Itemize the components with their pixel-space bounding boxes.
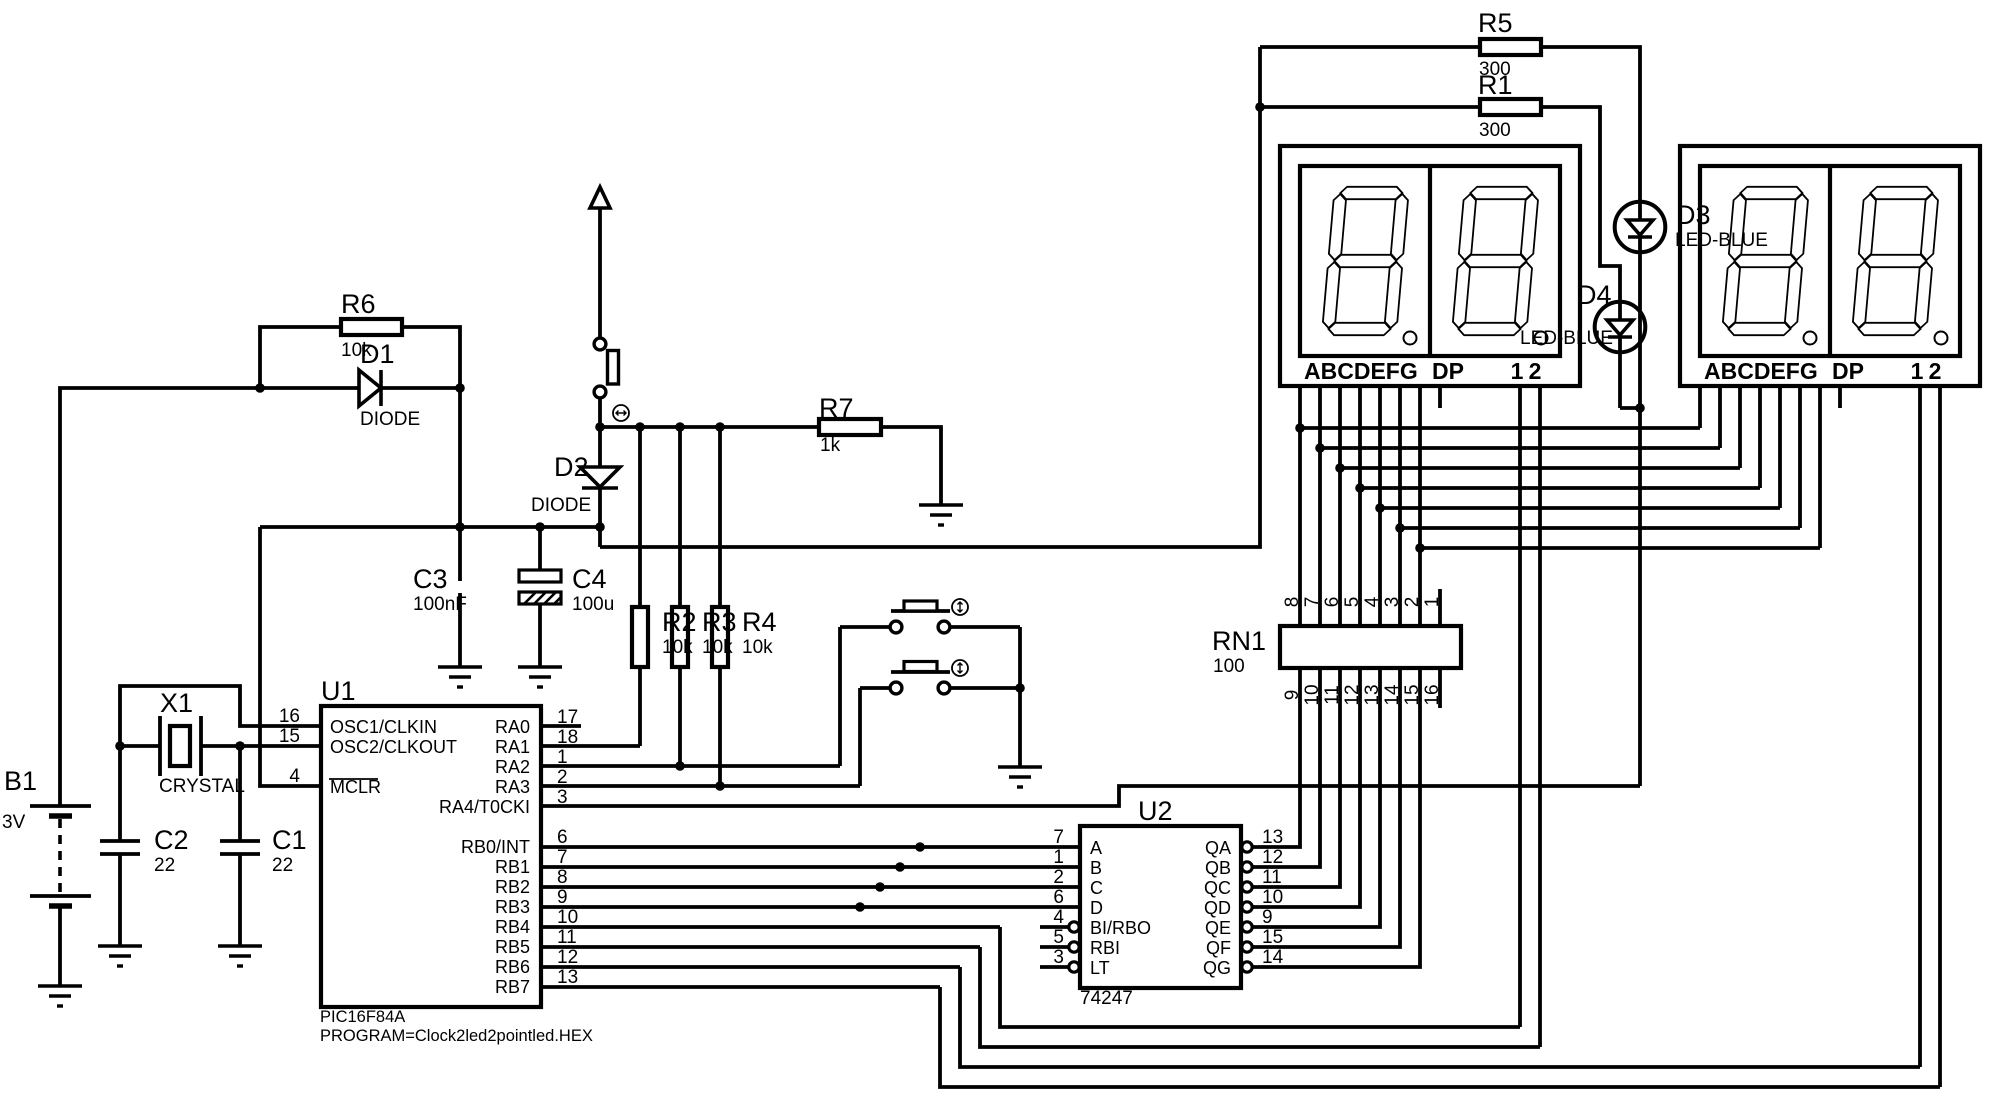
svg-text:B1: B1 [4, 766, 37, 796]
svg-text:RA1: RA1 [495, 737, 530, 757]
svg-text:74247: 74247 [1080, 988, 1133, 1009]
svg-text:C4: C4 [572, 564, 607, 594]
svg-text:13: 13 [1262, 827, 1283, 848]
svg-text:9: 9 [557, 887, 568, 908]
svg-text:4: 4 [289, 766, 300, 787]
svg-text:LED-BLUE: LED-BLUE [1675, 230, 1768, 251]
svg-text:QG: QG [1203, 958, 1231, 978]
svg-text:MCLR: MCLR [330, 777, 381, 797]
svg-text:R3: R3 [702, 607, 737, 637]
svg-text:RA0: RA0 [495, 717, 530, 737]
svg-text:3: 3 [1053, 947, 1064, 968]
svg-text:16: 16 [1422, 684, 1443, 705]
svg-text:300: 300 [1479, 59, 1511, 80]
svg-text:BI/RBO: BI/RBO [1090, 918, 1151, 938]
svg-text:7: 7 [557, 847, 568, 868]
svg-text:RA4/T0CKI: RA4/T0CKI [439, 797, 530, 817]
svg-text:14: 14 [1262, 947, 1284, 968]
svg-text:14: 14 [1382, 684, 1403, 706]
svg-text:C3: C3 [413, 564, 448, 594]
svg-text:10: 10 [1302, 684, 1323, 705]
svg-text:QB: QB [1205, 858, 1231, 878]
svg-text:7: 7 [1302, 597, 1323, 608]
svg-text:ABCDEFG: ABCDEFG [1304, 358, 1418, 384]
svg-text:A: A [1090, 838, 1102, 858]
svg-text:7: 7 [1053, 827, 1064, 848]
svg-text:17: 17 [557, 707, 578, 728]
svg-text:12: 12 [557, 947, 578, 968]
svg-text:QE: QE [1205, 918, 1231, 938]
svg-text:1: 1 [1511, 358, 1524, 384]
svg-text:15: 15 [1402, 684, 1423, 705]
svg-text:1: 1 [557, 747, 568, 768]
svg-text:RB1: RB1 [495, 857, 530, 877]
svg-text:D: D [1090, 898, 1103, 918]
svg-text:2: 2 [1929, 358, 1942, 384]
svg-text:D2: D2 [554, 452, 589, 482]
svg-text:11: 11 [1322, 685, 1343, 705]
svg-text:18: 18 [557, 727, 578, 748]
svg-text:CRYSTAL: CRYSTAL [159, 776, 245, 797]
svg-text:RB0/INT: RB0/INT [461, 837, 530, 857]
svg-text:4: 4 [1362, 596, 1383, 607]
svg-text:U1: U1 [321, 676, 356, 706]
svg-text:RA3: RA3 [495, 777, 530, 797]
svg-text:5: 5 [1342, 597, 1363, 608]
svg-text:PIC16F84A: PIC16F84A [320, 1008, 405, 1026]
svg-text:1: 1 [1422, 597, 1443, 608]
svg-text:C: C [1090, 878, 1103, 898]
svg-text:100u: 100u [572, 594, 614, 615]
svg-text:2: 2 [1053, 867, 1064, 888]
svg-text:6: 6 [557, 827, 568, 848]
svg-text:4: 4 [1053, 907, 1064, 928]
svg-text:RBI: RBI [1090, 938, 1120, 958]
svg-text:RB6: RB6 [495, 957, 530, 977]
svg-text:QF: QF [1206, 938, 1231, 958]
svg-text:12: 12 [1342, 684, 1363, 705]
svg-text:B: B [1090, 858, 1102, 878]
svg-text:100nF: 100nF [413, 594, 467, 615]
svg-text:9: 9 [1282, 690, 1303, 701]
svg-text:9: 9 [1262, 907, 1273, 928]
svg-text:RB4: RB4 [495, 917, 530, 937]
svg-text:RB7: RB7 [495, 977, 530, 997]
svg-text:10k: 10k [742, 637, 773, 658]
svg-text:C2: C2 [154, 825, 189, 855]
svg-text:D3: D3 [1676, 200, 1711, 230]
svg-text:11: 11 [557, 927, 577, 948]
svg-text:3: 3 [1382, 597, 1403, 608]
svg-text:10k: 10k [662, 637, 693, 658]
svg-text:PROGRAM=Clock2led2pointled.HEX: PROGRAM=Clock2led2pointled.HEX [320, 1027, 593, 1045]
svg-text:13: 13 [557, 967, 578, 988]
svg-text:3V: 3V [2, 812, 26, 833]
svg-text:ABCDEFG: ABCDEFG [1704, 358, 1818, 384]
svg-text:22: 22 [272, 855, 293, 876]
svg-text:22: 22 [154, 855, 175, 876]
svg-text:DP: DP [1832, 358, 1864, 384]
svg-text:8: 8 [1282, 597, 1303, 608]
svg-text:11: 11 [1262, 867, 1282, 888]
svg-text:R6: R6 [341, 289, 376, 319]
svg-text:10k: 10k [341, 340, 372, 361]
svg-text:10: 10 [1262, 887, 1283, 908]
svg-text:DP: DP [1432, 358, 1464, 384]
svg-text:12: 12 [1262, 847, 1283, 868]
svg-text:QC: QC [1204, 878, 1231, 898]
svg-text:R5: R5 [1478, 8, 1513, 38]
svg-text:15: 15 [279, 726, 300, 747]
svg-text:10k: 10k [702, 637, 733, 658]
svg-text:6: 6 [1322, 597, 1343, 608]
svg-text:C1: C1 [272, 825, 307, 855]
svg-text:OSC1/CLKIN: OSC1/CLKIN [330, 717, 437, 737]
svg-text:RB5: RB5 [495, 937, 530, 957]
svg-text:1k: 1k [820, 435, 841, 456]
svg-text:13: 13 [1362, 684, 1383, 705]
svg-text:6: 6 [1053, 887, 1064, 908]
svg-text:DIODE: DIODE [360, 409, 420, 430]
svg-text:D4: D4 [1577, 280, 1612, 310]
svg-text:R2: R2 [662, 607, 697, 637]
svg-text:1: 1 [1911, 358, 1924, 384]
svg-text:10: 10 [557, 907, 578, 928]
svg-text:DIODE: DIODE [531, 495, 591, 516]
svg-text:X1: X1 [160, 688, 193, 718]
svg-text:3: 3 [557, 787, 568, 808]
svg-text:QD: QD [1204, 898, 1231, 918]
svg-text:5: 5 [1053, 927, 1064, 948]
svg-text:LT: LT [1090, 958, 1110, 978]
svg-text:100: 100 [1213, 656, 1245, 677]
svg-text:U2: U2 [1138, 796, 1173, 826]
svg-text:QA: QA [1205, 838, 1231, 858]
svg-text:LED-BLUE: LED-BLUE [1520, 328, 1613, 349]
svg-text:RN1: RN1 [1212, 626, 1266, 656]
svg-text:RB3: RB3 [495, 897, 530, 917]
svg-text:8: 8 [557, 867, 568, 888]
svg-text:R4: R4 [742, 607, 777, 637]
svg-text:RB2: RB2 [495, 877, 530, 897]
svg-text:2: 2 [557, 767, 568, 788]
svg-text:R7: R7 [819, 393, 854, 423]
svg-text:300: 300 [1479, 120, 1511, 141]
svg-text:OSC2/CLKOUT: OSC2/CLKOUT [330, 737, 457, 757]
svg-text:16: 16 [279, 706, 300, 727]
svg-text:2: 2 [1529, 358, 1542, 384]
svg-text:2: 2 [1402, 597, 1423, 608]
svg-text:15: 15 [1262, 927, 1283, 948]
svg-text:RA2: RA2 [495, 757, 530, 777]
svg-text:1: 1 [1053, 847, 1064, 868]
